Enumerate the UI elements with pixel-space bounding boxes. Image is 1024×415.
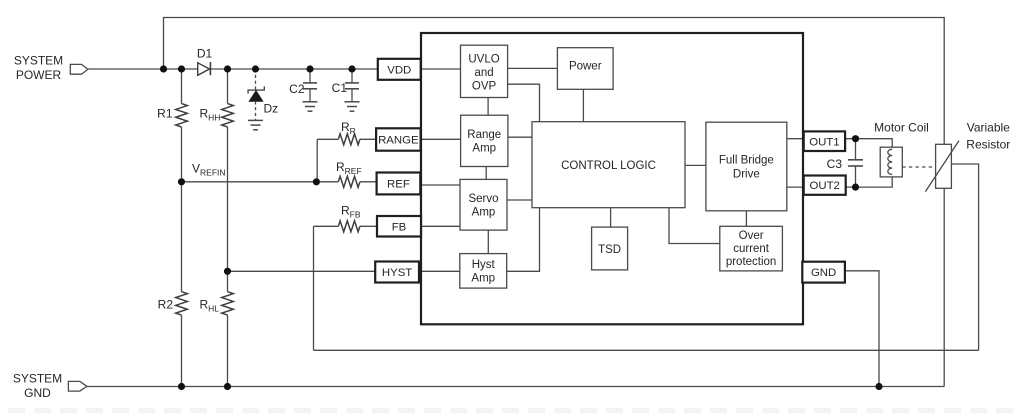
wire UVLO to control logic top bbox=[508, 84, 540, 122]
svg-text:R2: R2 bbox=[158, 298, 174, 312]
variable resistor bbox=[936, 144, 952, 188]
wire UVLO to Power bbox=[508, 67, 558, 69]
wire RFB vertical to feedback rail bbox=[313, 226, 315, 350]
resistor RR bbox=[338, 134, 360, 145]
zener diode Dz (dashed optional) bbox=[255, 69, 257, 90]
wire system gnd rail bbox=[87, 386, 944, 388]
block UVLO and OVP bbox=[461, 45, 508, 97]
svg-text:Dz: Dz bbox=[264, 102, 279, 116]
connector SYSTEM GND bbox=[68, 381, 87, 391]
wire RR vertical from VREFIN node bbox=[316, 139, 318, 182]
svg-text:HYST: HYST bbox=[382, 267, 412, 279]
junction VREFIN at R1 bbox=[178, 178, 185, 185]
pin VDD bbox=[378, 59, 421, 80]
wire RANGE pin to Range Amp bbox=[420, 138, 461, 140]
pin GND bbox=[802, 262, 845, 283]
svg-text:CONTROL LOGIC: CONTROL LOGIC bbox=[561, 160, 656, 172]
junction RHH branch bbox=[224, 65, 231, 72]
wire Servo Amp to control logic bbox=[507, 199, 532, 201]
wire R1 branch upper bbox=[181, 69, 183, 104]
svg-text:REF: REF bbox=[387, 179, 410, 191]
resistor RREF bbox=[338, 176, 360, 187]
wire RHH branch upper bbox=[227, 69, 229, 104]
ground for C2 bbox=[303, 102, 318, 111]
wire RHL to system gnd bbox=[227, 315, 229, 386]
wire feedback bottom rail bbox=[314, 349, 979, 351]
svg-text:Motor Coil: Motor Coil bbox=[874, 121, 929, 135]
wire control logic to over current protection bbox=[669, 208, 720, 244]
svg-text:C3: C3 bbox=[827, 157, 843, 171]
wire C3 top lead bbox=[855, 139, 857, 160]
svg-text:Drive: Drive bbox=[733, 168, 760, 180]
wire R1 to R2 (through VREFIN node) bbox=[181, 127, 183, 292]
svg-text:Variable: Variable bbox=[967, 121, 1010, 135]
svg-text:RANGE: RANGE bbox=[378, 135, 419, 147]
svg-text:D1: D1 bbox=[197, 47, 213, 61]
svg-text:Amp: Amp bbox=[472, 207, 496, 219]
svg-text:GND: GND bbox=[811, 267, 836, 279]
wire UVLO to Range Amp bbox=[487, 98, 489, 116]
junction top rail branch bbox=[160, 65, 167, 72]
block TSD bbox=[592, 227, 628, 270]
wire C3 bottom lead bbox=[855, 166, 857, 187]
wire motor coil to OUT2 bbox=[846, 174, 893, 187]
wire HYST net bbox=[228, 270, 376, 272]
capacitor C1 bbox=[351, 69, 353, 83]
junction OUT1 at C3 bbox=[852, 135, 859, 142]
connector SYSTEM POWER bbox=[70, 64, 88, 74]
pin REF bbox=[377, 173, 421, 195]
wire variable resistor tap to feedback rail bbox=[951, 164, 978, 350]
wire system power rail bbox=[88, 68, 378, 70]
svg-text:protection: protection bbox=[726, 256, 777, 268]
svg-text:SYSTEM: SYSTEM bbox=[14, 53, 63, 67]
junction HYST at RHH/RHL bbox=[224, 268, 231, 275]
junction C1 branch bbox=[348, 65, 355, 72]
svg-text:Amp: Amp bbox=[472, 143, 496, 155]
svg-text:Amp: Amp bbox=[471, 273, 495, 285]
svg-text:current: current bbox=[733, 243, 770, 255]
wire RREF to REF pin bbox=[360, 181, 377, 183]
svg-text:FB: FB bbox=[392, 221, 407, 233]
svg-text:Resistor: Resistor bbox=[966, 138, 1010, 152]
pin HYST bbox=[375, 262, 419, 283]
capacitor C2 bbox=[309, 69, 311, 83]
svg-text:Full Bridge: Full Bridge bbox=[719, 155, 774, 167]
pin FB bbox=[377, 216, 421, 237]
svg-text:Servo: Servo bbox=[468, 193, 498, 205]
svg-text:VDD: VDD bbox=[387, 64, 411, 76]
svg-text:C2: C2 bbox=[289, 82, 305, 96]
svg-text:R1: R1 bbox=[157, 107, 173, 121]
ground for Dz bbox=[248, 120, 263, 129]
wire control logic to full bridge drive bbox=[685, 164, 706, 166]
svg-text:SYSTEM: SYSTEM bbox=[13, 371, 62, 385]
block Servo Amp bbox=[460, 179, 507, 230]
svg-text:UVLO: UVLO bbox=[468, 54, 499, 66]
wire FB pin to Servo Amp bbox=[421, 225, 460, 227]
wire REF pin to Servo Amp bbox=[421, 184, 461, 186]
ground for C1 bbox=[345, 102, 360, 111]
resistor RFB bbox=[338, 221, 360, 232]
wire Range Amp to Servo Amp bbox=[485, 167, 487, 180]
svg-text:Over: Over bbox=[739, 230, 764, 242]
pin RANGE bbox=[376, 128, 421, 150]
junction R2 at system gnd bbox=[178, 383, 185, 390]
wire VREFIN rail bbox=[182, 181, 339, 183]
svg-text:TSD: TSD bbox=[598, 244, 621, 256]
mechanical coupling dashed link bbox=[902, 166, 935, 168]
wire Range Amp to control logic bbox=[508, 136, 532, 138]
resistor R2 bbox=[176, 292, 188, 315]
wire full bridge drive to OUT2 pin bbox=[787, 186, 804, 188]
wire variable resistor bottom to system gnd rail bbox=[943, 188, 945, 386]
wire RFB lead left bbox=[314, 225, 339, 227]
wire GND pin to system gnd rail bbox=[845, 271, 879, 387]
block Hyst Amp bbox=[460, 254, 507, 289]
block Power bbox=[557, 48, 613, 90]
svg-text:POWER: POWER bbox=[16, 68, 62, 82]
junction R1 branch bbox=[178, 65, 185, 72]
wire RR lead left bbox=[317, 138, 338, 140]
wire OUT1 to motor coil bbox=[845, 139, 892, 150]
wire Servo Amp to Hyst Amp bbox=[487, 230, 489, 254]
block Over current protection bbox=[720, 226, 783, 271]
wire full bridge drive to over current protection bbox=[745, 211, 747, 227]
junction Dz branch bbox=[252, 65, 259, 72]
diode D1 bbox=[198, 63, 210, 76]
block Range Amp bbox=[461, 115, 508, 166]
junction C2 branch bbox=[306, 65, 313, 72]
wire VDD pin to UVLO bbox=[421, 68, 461, 70]
svg-text:OVP: OVP bbox=[472, 81, 497, 93]
IC block outline bbox=[421, 33, 803, 324]
wire Power to control logic top bbox=[582, 89, 584, 121]
wire R2 to system gnd bbox=[181, 315, 183, 386]
wire HYST pin to Hyst Amp bbox=[419, 270, 460, 272]
wire Hyst Amp to control logic bottom bbox=[507, 208, 540, 272]
junction GND wire at system gnd bbox=[875, 383, 882, 390]
svg-text:OUT2: OUT2 bbox=[810, 180, 840, 192]
pin OUT1 bbox=[804, 131, 845, 151]
wire RHH to RHL (through HYST node) bbox=[227, 127, 229, 292]
svg-text:Power: Power bbox=[569, 61, 602, 73]
resistor R1 bbox=[176, 104, 188, 127]
svg-text:OUT1: OUT1 bbox=[809, 136, 839, 148]
capacitor C3 bbox=[848, 160, 863, 166]
wire full bridge drive to OUT1 pin bbox=[787, 138, 804, 140]
svg-text:C1: C1 bbox=[332, 81, 348, 95]
junction VREFIN at RREF bbox=[313, 178, 320, 185]
junction RHL at system gnd bbox=[224, 383, 231, 390]
svg-text:GND: GND bbox=[24, 386, 51, 400]
wire top rail from system power to variable resistor bbox=[164, 18, 945, 145]
resistor RHH bbox=[222, 104, 234, 127]
wire control logic to TSD bbox=[610, 208, 612, 227]
resistor RHL bbox=[222, 292, 234, 315]
faint caption artifact band bbox=[8, 408, 1016, 414]
svg-text:Range: Range bbox=[467, 129, 501, 141]
wire RFB to FB pin bbox=[360, 225, 377, 227]
svg-text:and: and bbox=[474, 67, 493, 79]
block Full Bridge Drive bbox=[706, 122, 787, 211]
pin OUT2 bbox=[804, 176, 846, 195]
wire RR to RANGE pin bbox=[360, 138, 376, 140]
motor coil bbox=[880, 147, 902, 177]
block CONTROL LOGIC bbox=[532, 122, 685, 208]
svg-text:Hyst: Hyst bbox=[472, 259, 496, 271]
junction OUT2 at C3 bbox=[852, 184, 859, 191]
